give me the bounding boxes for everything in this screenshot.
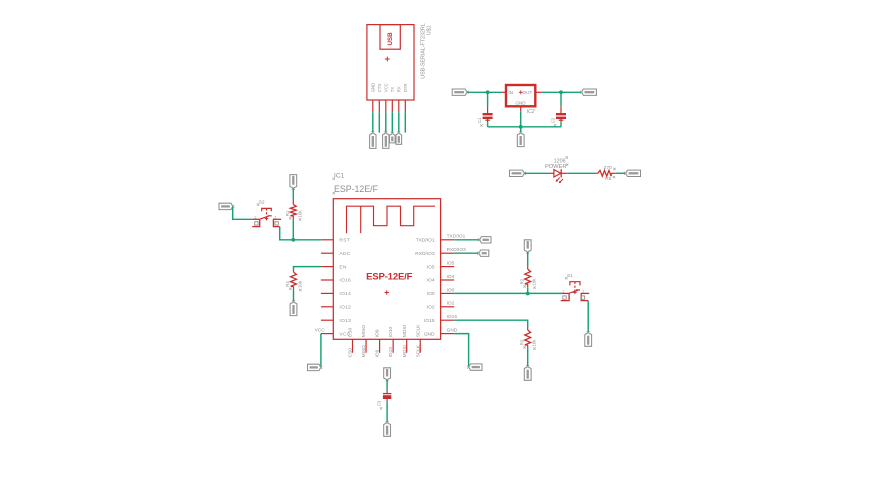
svg-text:R3: R3	[519, 339, 524, 345]
IC1 left pin IO16	[321, 279, 333, 281]
junction at C1 top	[486, 90, 490, 94]
svg-text:IO5: IO5	[427, 264, 435, 270]
resistor R2 10k	[525, 269, 531, 284]
svg-text:IC2: IC2	[527, 109, 535, 115]
IC1 left pin IO13	[321, 319, 333, 321]
svg-text:POWER: POWER	[545, 164, 566, 170]
svg-text:VCC: VCC	[315, 327, 326, 333]
svg-text:IO5: IO5	[447, 261, 455, 267]
svg-text:USB-SERIAL-FT232RL: USB-SERIAL-FT232RL	[420, 23, 426, 78]
svg-text:EN: EN	[339, 264, 347, 270]
IC1 right pin TXD/IO1	[441, 239, 455, 241]
IC1 left pin RST	[321, 239, 333, 241]
net flag VCC bottom left	[308, 364, 321, 370]
svg-text:RXD/IO3: RXD/IO3	[415, 251, 435, 257]
wire R3 top lead	[527, 327, 529, 330]
svg-text:IO9: IO9	[375, 349, 381, 357]
net label RX flag under U$1 pin 5	[396, 133, 402, 144]
regulator GND pin stub	[520, 106, 522, 111]
net flag GND right of R5	[626, 170, 641, 176]
IC1 bottom pin MOSI	[406, 339, 408, 353]
svg-text:ESP-12E/F: ESP-12E/F	[334, 184, 379, 194]
svg-text:10k: 10k	[532, 339, 537, 347]
net label GND flag under U$1 pin 1	[370, 133, 376, 149]
IC1 left pin EN	[321, 266, 333, 268]
switch S1 contact bar	[569, 290, 578, 293]
svg-text:RX: RX	[397, 86, 402, 92]
IC1 right pin RXD/IO3	[441, 252, 455, 254]
svg-text:R1: R1	[285, 210, 290, 216]
switch S1 pin 1	[562, 292, 570, 294]
svg-text:MOSI: MOSI	[402, 345, 408, 357]
switch S2 actuator cross	[265, 218, 269, 220]
svg-text:R4: R4	[285, 281, 290, 287]
svg-text:10k: 10k	[532, 278, 537, 286]
net label VCC flag under U$1 pin 3	[383, 133, 389, 149]
wire to GND flag	[520, 127, 522, 133]
net label TX flag under U$1 pin 4	[390, 133, 396, 143]
wire C3 bottom	[386, 399, 388, 402]
svg-text:C2: C2	[551, 117, 556, 123]
wire C2 top lead	[560, 92, 562, 106]
svg-text:RST: RST	[339, 238, 350, 244]
svg-text:DTR: DTR	[403, 83, 408, 92]
svg-text:VCC: VCC	[384, 83, 389, 92]
wire C2 bottom lead	[560, 119, 562, 122]
U$1 pin TX stub	[391, 100, 393, 112]
svg-text:IO13: IO13	[339, 318, 351, 324]
junction at C2 top	[559, 90, 563, 94]
svg-text:IO10: IO10	[388, 326, 394, 337]
svg-text:10k: 10k	[297, 210, 302, 218]
wire C1 top lead	[487, 92, 489, 106]
svg-text:10k: 10k	[298, 280, 303, 288]
IC1 center origin cross	[385, 292, 389, 294]
wire C3 top	[386, 380, 388, 391]
switch S1 actuator cross	[573, 291, 577, 293]
wire R2 top	[527, 252, 529, 266]
LED D1 POWER	[549, 172, 554, 174]
wire net RX from U$1	[398, 112, 400, 132]
wire net TX from U$1	[391, 112, 393, 132]
wire S2 to RST net	[280, 227, 294, 240]
ground bus wire between C1 and C2	[488, 126, 561, 128]
U$1 USB connector inner box	[380, 25, 400, 50]
svg-text:1: 1	[254, 215, 256, 219]
regulator IN pin stub	[502, 91, 506, 93]
regulator OUT pin stub	[535, 91, 541, 93]
resistor R1 10k	[290, 204, 296, 216]
junction IO0	[526, 292, 530, 296]
IC1 right pin IO5	[441, 266, 455, 268]
svg-text:IO0: IO0	[427, 291, 435, 297]
wire IO15 to R3	[454, 320, 528, 327]
net flag VCC-in left of regulator	[452, 89, 467, 95]
svg-text:C1: C1	[477, 117, 482, 123]
capacitor C3	[383, 393, 391, 395]
IC1 antenna meander	[347, 206, 436, 233]
svg-text:270: 270	[604, 165, 612, 171]
net flag GND below C3	[384, 423, 391, 437]
svg-text:CS0: CS0	[348, 328, 354, 338]
wire R4 bottom	[293, 286, 295, 289]
LED emission arrows	[556, 178, 560, 182]
IC1 right pin GND	[441, 333, 455, 335]
svg-text:IO15: IO15	[447, 314, 458, 320]
wire S1 down to GND flag	[587, 301, 589, 333]
svg-text:R5: R5	[605, 176, 612, 182]
voltage regulator IC2 body	[506, 85, 535, 106]
wire R2 bottom	[527, 284, 529, 287]
wire R1 bottom	[292, 216, 294, 219]
svg-text:S2: S2	[259, 200, 265, 206]
svg-text:SCLK: SCLK	[415, 324, 421, 337]
net flag RXD	[479, 250, 489, 256]
svg-text:IO4: IO4	[427, 278, 435, 284]
svg-text:IO12: IO12	[339, 305, 351, 311]
wire from flag to S2	[233, 206, 253, 219]
switch S2 stem	[266, 208, 268, 217]
IC1 bottom pin CS0	[352, 339, 354, 353]
svg-text:GND: GND	[424, 331, 435, 337]
net flag GND bottom right	[469, 364, 482, 370]
wire R1 top	[292, 188, 294, 200]
IC1 right pin IO15	[441, 319, 455, 321]
U$1 pin GND stub	[372, 100, 374, 112]
wire to LED anode	[524, 172, 548, 174]
net flag GND left of S2	[219, 203, 233, 209]
wire LED cathode to R5	[568, 172, 596, 174]
capacitor C2	[556, 113, 566, 115]
IC1 left pin IO14	[321, 292, 333, 294]
connector U$1 USB-SERIAL-FT232RL outline	[367, 25, 414, 100]
wire VCC down	[320, 334, 322, 368]
switch S1 pin 2	[581, 292, 590, 294]
net flag VCC above R2	[524, 240, 531, 252]
U$1 pin DTR stub	[404, 100, 406, 112]
wire C1 bottom lead	[487, 119, 489, 122]
net flag VCC above R1	[290, 175, 297, 189]
IC1 bottom pin MISO	[365, 339, 367, 353]
svg-text:USB: USB	[387, 32, 394, 46]
svg-text:TXD/IO1: TXD/IO1	[447, 234, 466, 240]
svg-text:IN: IN	[508, 90, 513, 95]
junction ground bus	[519, 125, 523, 129]
svg-text:IO4: IO4	[447, 274, 455, 280]
net flag 3V3 right of regulator	[582, 89, 597, 95]
IC1 left pin VCC	[321, 333, 333, 335]
svg-text:S1: S1	[567, 273, 573, 279]
svg-text:TXD/IO1: TXD/IO1	[416, 238, 435, 244]
svg-text:1: 1	[562, 289, 564, 293]
IC1 right pin IO0	[441, 292, 455, 294]
svg-text:U$1: U$1	[427, 25, 433, 35]
U$1 pin VCC stub	[385, 100, 387, 112]
IC2 origin cross	[519, 91, 523, 93]
IC1 bottom pin SCLK	[419, 339, 421, 353]
IC1 right pin IO2	[441, 306, 455, 308]
svg-text:MOSI: MOSI	[402, 325, 408, 337]
svg-text:MISO: MISO	[361, 325, 367, 338]
switch S2 cap bracket	[262, 208, 272, 211]
svg-text:IO9: IO9	[375, 329, 381, 337]
net flag GND below S1	[585, 333, 592, 347]
svg-text:SCLK: SCLK	[415, 344, 421, 357]
junction RST	[291, 238, 295, 242]
svg-text:IO15: IO15	[424, 318, 435, 324]
wire net CTS from U$1	[378, 112, 380, 132]
svg-text:MISO: MISO	[361, 345, 367, 358]
resistor R5 270	[595, 172, 598, 174]
wire EN to R4	[294, 267, 321, 271]
switch S1 stem	[574, 282, 576, 291]
IC1 right pin IO4	[441, 279, 455, 281]
svg-text:CTS: CTS	[377, 84, 382, 93]
net flag VCC above C3	[384, 368, 391, 380]
svg-text:ADC: ADC	[339, 251, 350, 257]
wire IO0 to S1	[454, 292, 561, 294]
svg-text:R2: R2	[519, 278, 524, 284]
switch S2 contact bar	[260, 216, 269, 219]
wire regulator GND down	[520, 111, 522, 127]
switch S2 pin 1	[252, 218, 260, 220]
svg-text:2: 2	[274, 215, 276, 219]
IC1 bottom pin IO10	[392, 339, 394, 353]
wire into regulator IN	[467, 91, 502, 93]
net flag TXD	[480, 237, 492, 243]
switch S2 pin 2	[273, 218, 281, 220]
svg-text:ESP-12E/F: ESP-12E/F	[366, 271, 413, 282]
svg-text:IO2: IO2	[427, 305, 435, 311]
switch S1 cap bracket	[570, 282, 580, 286]
resistor R3 10k	[525, 330, 531, 345]
svg-text:GND: GND	[371, 83, 376, 93]
wire net VCC from U$1	[385, 112, 387, 132]
svg-text:C3: C3	[377, 400, 382, 406]
U$1 pin CTS stub	[378, 100, 380, 112]
wire net DTR from U$1	[404, 112, 406, 132]
svg-text:2: 2	[582, 289, 584, 293]
svg-text:IO2: IO2	[447, 301, 455, 307]
svg-text:RXD/IO3: RXD/IO3	[447, 247, 467, 253]
svg-text:IC1: IC1	[334, 173, 345, 180]
IC1 left pin ADC	[321, 252, 333, 254]
IC1 body	[333, 199, 440, 340]
net flag GND below R3	[524, 367, 531, 381]
svg-text:GND: GND	[447, 328, 458, 334]
resistor R4 10k	[291, 272, 297, 286]
capacitor C1	[483, 113, 493, 115]
svg-text:IO16: IO16	[339, 278, 351, 284]
wire R5 to GND flag	[615, 172, 625, 174]
svg-text:IO10: IO10	[388, 347, 394, 358]
svg-text:TX: TX	[390, 87, 395, 93]
wire net GND from U$1	[372, 112, 374, 132]
svg-text:OUT: OUT	[523, 90, 533, 95]
net flag below R4	[290, 302, 297, 316]
U$1 pin RX stub	[398, 100, 400, 112]
wire regulator OUT to 3V3 flag	[542, 91, 582, 93]
wire RST to IC1	[293, 239, 321, 241]
wire TXD to flag	[454, 239, 479, 241]
wire RXD to flag	[454, 252, 479, 254]
wire GND right and down	[454, 334, 468, 368]
svg-text:CS0: CS0	[348, 348, 354, 358]
svg-text:GND: GND	[515, 100, 526, 105]
svg-text:IO14: IO14	[339, 291, 351, 297]
wire R4 top lead	[293, 271, 295, 272]
U$1 origin cross	[385, 58, 390, 60]
net flag 3V3 left of power LED	[510, 170, 525, 176]
IC1 bottom pin IO9	[379, 339, 381, 353]
wire R3 bottom	[527, 345, 529, 348]
svg-text:IO0: IO0	[447, 287, 455, 293]
net flag GND below regulator	[517, 133, 524, 147]
IC1 left pin IO12	[321, 306, 333, 308]
